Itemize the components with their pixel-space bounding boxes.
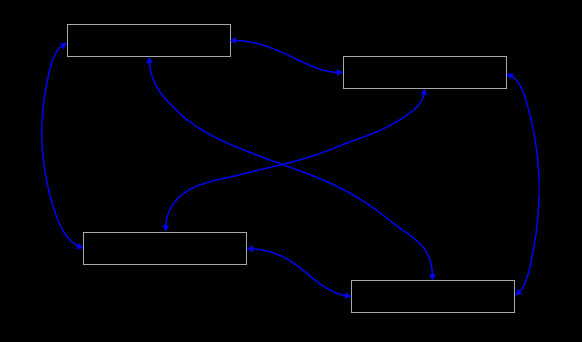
node n2 (top-right box) <box>344 57 507 89</box>
edge n1->n3 (left side curve, arrowheads both ends) <box>42 46 78 246</box>
edge n1->n2 (arrowheads both ends) <box>236 41 337 73</box>
node n4 (bottom-right box) <box>352 281 515 313</box>
edge n2->n4 (right side curve, arrowheads both ends) <box>512 76 539 291</box>
edge n2->n3 (long diagonal, arrowheads both ends) <box>166 95 424 226</box>
edge n1->n4 (long diagonal, arrowheads both ends) <box>150 63 433 274</box>
node n1 (top-left box) <box>68 25 231 57</box>
edge n3->n4 (arrowheads both ends) <box>253 249 345 296</box>
node n3 (bottom-left box) <box>84 233 247 265</box>
